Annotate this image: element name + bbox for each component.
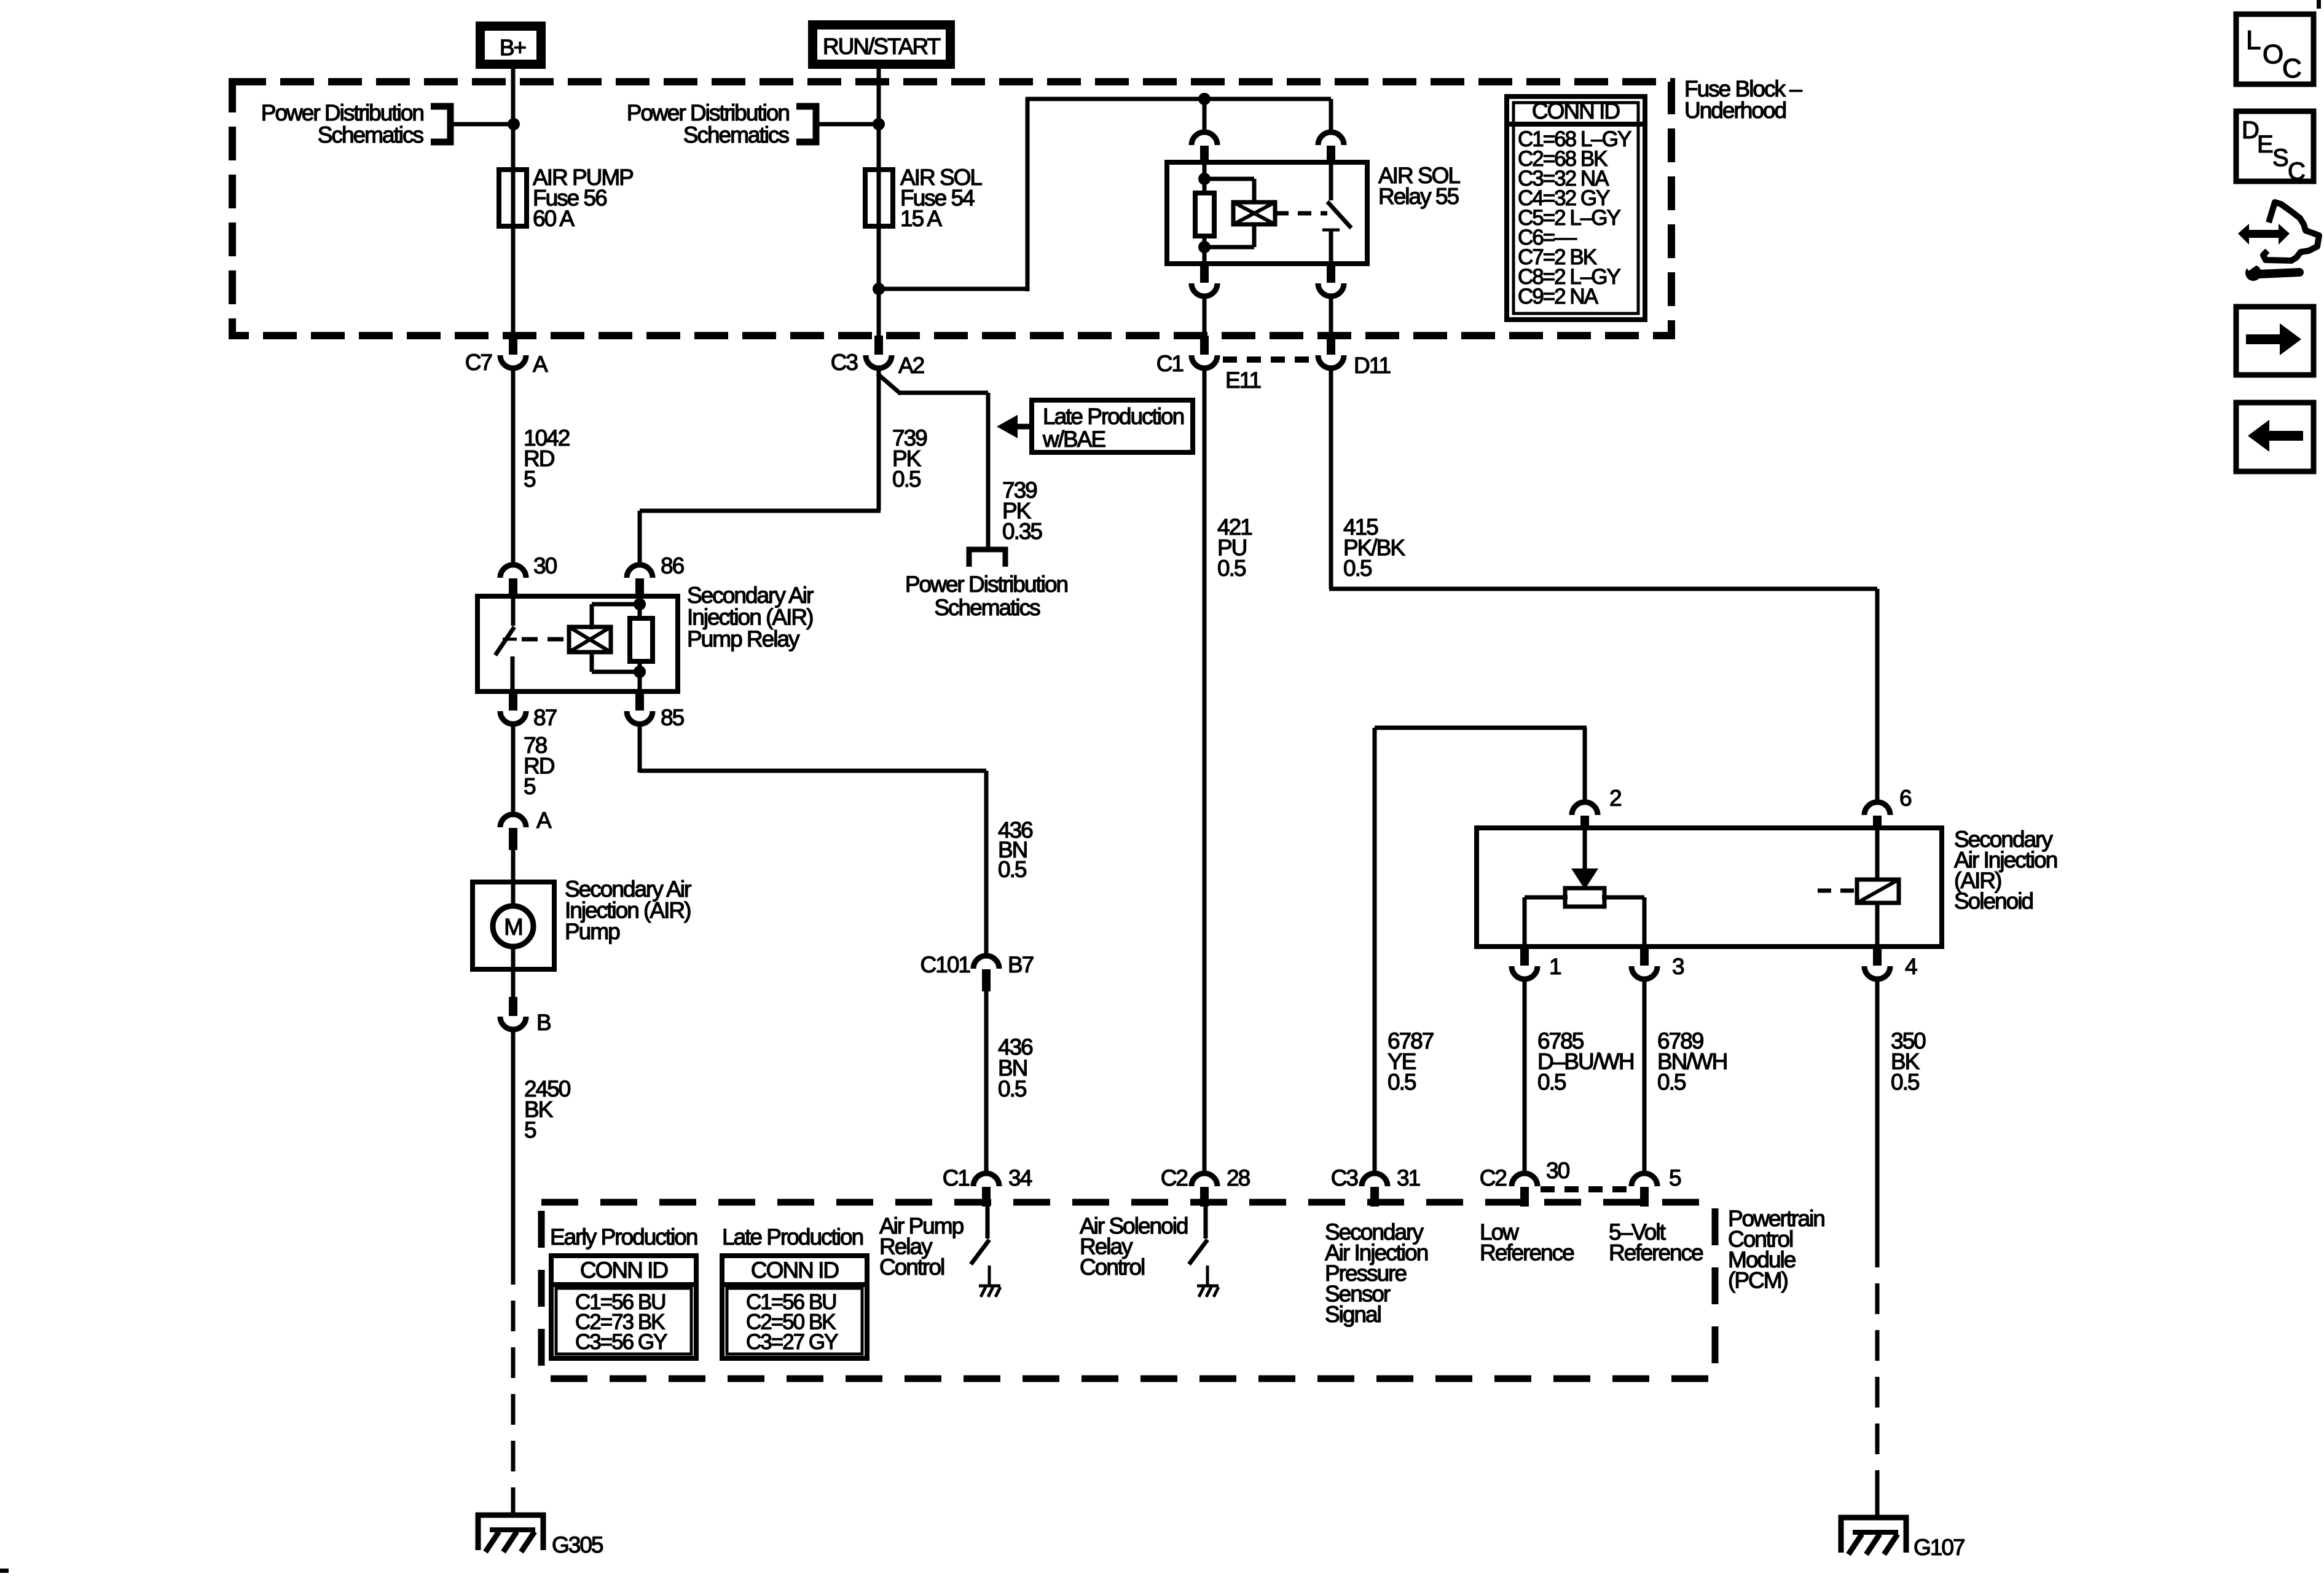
relay 55 actuation dashed link xyxy=(1275,211,1327,216)
component box Secondary Air Injection (AIR) Solenoid xyxy=(1477,828,1942,947)
connector pin 87 (pump relay) xyxy=(509,691,517,711)
svg-text:C9=2 NA: C9=2 NA xyxy=(1518,285,1599,309)
svg-text:Late Production: Late Production xyxy=(722,1224,863,1250)
switch (air pump relay control driver) xyxy=(986,1207,990,1238)
svg-text:5: 5 xyxy=(524,1117,536,1143)
switch (air solenoid relay control driver) xyxy=(1204,1207,1208,1238)
wire across to relay 55 pins xyxy=(1026,97,1331,101)
wire 739 PK 0.5 (C3 to relay pin 86) xyxy=(877,368,881,511)
wire into G305 xyxy=(511,1494,516,1515)
connector solenoid pin 3 xyxy=(1640,947,1649,966)
icon vehicle outline with arrows and wrench xyxy=(2263,202,2319,261)
svg-text:5: 5 xyxy=(524,774,536,799)
icon LOC box xyxy=(2236,14,2314,84)
fuse block - underhood dashed outline xyxy=(232,82,1671,336)
bracket to Power Distribution Schematics (right) xyxy=(813,103,820,145)
svg-text:3: 3 xyxy=(1672,954,1684,979)
connector table CONN ID (fuse block) xyxy=(1507,96,1645,320)
connector table CONN ID (late production) xyxy=(722,1256,867,1358)
svg-text:15 A: 15 A xyxy=(900,206,942,231)
fuse F54 AIR SOL xyxy=(865,170,893,226)
icon back arrow box xyxy=(2236,403,2314,471)
svg-text:G305: G305 xyxy=(552,1532,603,1557)
wire 436 BN 0.5 (relay 85 to C101) xyxy=(638,724,642,773)
connector pump terminal B xyxy=(509,997,517,1016)
relay 55 coil feed wire xyxy=(1203,162,1207,264)
svg-text:Power Distribution: Power Distribution xyxy=(261,100,424,125)
svg-text:31: 31 xyxy=(1397,1165,1420,1191)
svg-text:Reference: Reference xyxy=(1609,1240,1703,1266)
svg-text:A2: A2 xyxy=(898,353,924,378)
connector table CONN ID (early production) xyxy=(551,1256,696,1358)
wire into G107 xyxy=(1875,1496,1880,1518)
svg-text:Control: Control xyxy=(1080,1254,1144,1280)
svg-text:0.5: 0.5 xyxy=(892,467,921,492)
wire 350 BK 0.5 (solenoid 4 down) xyxy=(1875,979,1880,1237)
svg-text:M: M xyxy=(504,915,524,940)
svg-text:C2: C2 xyxy=(1480,1165,1507,1191)
wire fuse 54 to C3 xyxy=(877,226,881,337)
svg-text:6: 6 xyxy=(1899,786,1911,811)
resistor (relay 55 internal) xyxy=(1195,193,1214,236)
svg-text:C: C xyxy=(2282,53,2302,84)
wire 78 RD 5 (relay 87 to pump A) xyxy=(511,724,516,813)
svg-text:(PCM): (PCM) xyxy=(1728,1268,1788,1293)
wire into pump xyxy=(511,850,516,882)
svg-text:Pump: Pump xyxy=(565,919,620,944)
coil (pump relay winding) xyxy=(569,627,611,652)
svg-text:4: 4 xyxy=(1905,954,1917,979)
ground (PCM internal, pump driver) xyxy=(979,1285,1000,1288)
connector solenoid pin 2 xyxy=(1572,802,1598,815)
svg-text:Pump Relay: Pump Relay xyxy=(687,626,800,652)
wire 6785 D-BU/WH 0.5 (pin 1 to PCM 30) xyxy=(1523,979,1527,1171)
svg-text:87: 87 xyxy=(533,705,557,730)
svg-text:Reference: Reference xyxy=(1480,1240,1574,1266)
relay U55 AIR SOL Relay box xyxy=(1167,162,1367,264)
svg-text:0.5: 0.5 xyxy=(1388,1069,1416,1095)
node relay 55 coil bottom xyxy=(1198,241,1211,253)
wire fuse 56 to C7 xyxy=(511,226,516,337)
connector pin 30 (pump relay) xyxy=(500,565,526,578)
svg-text:CONN ID: CONN ID xyxy=(1532,98,1620,124)
connector E11 terminal D11 xyxy=(1327,336,1335,355)
svg-text:Signal: Signal xyxy=(1325,1302,1381,1327)
wire 421 PU 0.5 (E11 C1 to PCM 28) xyxy=(1203,368,1207,1171)
bracket to Power Distribution Schematics (left) xyxy=(447,103,454,145)
svg-text:Control: Control xyxy=(879,1254,944,1280)
connector pin (relay 55 left, top) xyxy=(1203,99,1207,130)
wire up to relay 55 row xyxy=(1026,97,1030,291)
wire 6787 YE 0.5 (sensor 2 to PCM 31) xyxy=(1583,728,1587,800)
svg-text:1: 1 xyxy=(1549,954,1561,979)
svg-text:0.5: 0.5 xyxy=(998,1076,1027,1101)
wire 739 PK 0.35 branch xyxy=(877,374,901,394)
node pump relay coil top xyxy=(634,598,646,610)
connector pin 86 (pump relay) xyxy=(627,565,653,578)
wire 6789 BN/WH 0.5 (pin 3 to PCM 5) xyxy=(1643,979,1647,1171)
icon forward arrow box xyxy=(2236,307,2314,375)
page corner mark bottom-left xyxy=(0,1569,9,1573)
svg-text:C: C xyxy=(2288,158,2306,185)
wire sensor resistor left to pin 1 xyxy=(1525,896,1568,900)
svg-text:L: L xyxy=(2246,25,2261,55)
pump relay coil wire xyxy=(638,596,642,691)
power symbol RUN/START box xyxy=(808,20,955,69)
wire pump relay coil loop bottom xyxy=(590,652,594,672)
svg-text:CONN ID: CONN ID xyxy=(580,1258,668,1283)
svg-text:0.5: 0.5 xyxy=(1657,1069,1686,1095)
svg-text:C101: C101 xyxy=(921,952,970,977)
pressure sensor arrow xyxy=(1583,828,1587,872)
svg-text:B+: B+ xyxy=(500,35,526,60)
svg-text:0.5: 0.5 xyxy=(1217,556,1246,581)
connector pin 85 (pump relay) xyxy=(635,691,644,711)
wire 436 BN 0.5 (C101 to PCM 34) xyxy=(984,991,989,1171)
wire relay 55 coil loop top xyxy=(1202,177,1254,181)
svg-text:30: 30 xyxy=(533,553,557,578)
motor M (Secondary Air Injection Pump) box xyxy=(473,882,554,969)
svg-text:Power Distribution: Power Distribution xyxy=(905,572,1068,597)
connector pin (relay 55 left, bottom) xyxy=(1200,264,1209,283)
node junction on RUN/START wire xyxy=(873,118,885,130)
wire 2450 BK 5 dashed segment xyxy=(511,1254,516,1498)
wire relay 55 coil loop bottom xyxy=(1252,224,1257,247)
svg-text:0.5: 0.5 xyxy=(1537,1069,1566,1095)
resistor (pump relay internal) xyxy=(630,618,653,661)
connector PCM pin 5 xyxy=(1631,1173,1657,1186)
wire 350 BK dashed segment xyxy=(1875,1237,1880,1500)
pressure sensor resistor xyxy=(1565,888,1604,907)
svg-text:RUN/START: RUN/START xyxy=(823,34,941,59)
svg-text:Schematics: Schematics xyxy=(683,122,790,148)
svg-text:C2: C2 xyxy=(1161,1165,1188,1191)
svg-text:0.5: 0.5 xyxy=(998,857,1027,882)
solenoid coil xyxy=(1875,828,1880,881)
relay K (Secondary Air Injection Pump Relay) box xyxy=(477,596,678,691)
svg-text:A: A xyxy=(533,352,548,377)
connector C101 terminal B7 xyxy=(973,956,999,969)
PCM dashed outline xyxy=(541,1202,1715,1379)
pump relay actuation dashed link xyxy=(522,637,567,642)
svg-text:C3: C3 xyxy=(1331,1165,1358,1191)
ground (PCM internal, solenoid driver) xyxy=(1197,1285,1219,1288)
wire RUN/START down to fuse 54 xyxy=(877,66,881,229)
connector pin (relay 55 right, top) xyxy=(1329,99,1333,130)
coil (relay 55 solenoid winding) xyxy=(1233,202,1275,224)
svg-text:CONN ID: CONN ID xyxy=(751,1258,839,1283)
svg-text:G107: G107 xyxy=(1914,1535,1965,1560)
node junction on B+ wire xyxy=(508,118,520,130)
connector PCM pin C1-34 xyxy=(973,1173,999,1186)
connector pump terminal A xyxy=(500,814,526,827)
switch (pump relay contacts) xyxy=(511,596,516,626)
svg-text:B7: B7 xyxy=(1008,952,1034,977)
callout box Late Production w/BAE xyxy=(1032,400,1193,452)
svg-text:34: 34 xyxy=(1008,1165,1032,1191)
svg-text:85: 85 xyxy=(661,705,685,730)
svg-text:5: 5 xyxy=(1669,1165,1681,1191)
page corner mark top-right xyxy=(2317,0,2321,9)
svg-text:28: 28 xyxy=(1227,1165,1250,1191)
icon DESC box xyxy=(2236,111,2314,181)
svg-text:Early Production: Early Production xyxy=(550,1224,697,1250)
wire sensor resistor right to pin 3 xyxy=(1602,896,1644,900)
off-page symbol to Power Distribution Schematics xyxy=(967,547,1008,553)
node relay 55 coil top xyxy=(1198,173,1211,185)
svg-text:0.5: 0.5 xyxy=(1891,1069,1920,1095)
connector solenoid pin 4 xyxy=(1873,947,1882,966)
svg-text:O: O xyxy=(2263,39,2283,69)
svg-text:C3=27 GY: C3=27 GY xyxy=(746,1330,838,1354)
svg-text:86: 86 xyxy=(661,553,684,578)
power symbol B+ box xyxy=(476,22,546,69)
svg-text:Schematics: Schematics xyxy=(318,122,424,148)
switch (relay 55 contacts) xyxy=(1329,162,1333,200)
svg-text:Schematics: Schematics xyxy=(934,595,1040,620)
wire 2450 BK 5 (pump B down) xyxy=(511,1030,516,1254)
svg-text:D11: D11 xyxy=(1354,353,1391,378)
svg-text:C3: C3 xyxy=(831,350,858,375)
svg-text:Solenoid: Solenoid xyxy=(1954,889,2033,914)
wire pump relay coil loop top xyxy=(592,602,642,607)
svg-text:Underhood: Underhood xyxy=(1684,98,1786,123)
node pump relay coil bottom xyxy=(634,666,646,678)
solenoid coil dashed actuation link xyxy=(1818,889,1856,893)
svg-text:A: A xyxy=(536,808,552,833)
PCM pins 30-5 dashed tie xyxy=(1541,1186,1628,1192)
connector solenoid pin 1 xyxy=(1520,947,1529,966)
svg-text:Relay 55: Relay 55 xyxy=(1378,184,1459,209)
wire pump to terminal B xyxy=(511,969,516,998)
connector pin (relay 55 right, bottom) xyxy=(1327,264,1335,283)
ground G305 xyxy=(476,1513,546,1518)
svg-text:30: 30 xyxy=(1546,1158,1570,1183)
svg-text:2: 2 xyxy=(1609,786,1621,811)
connector C3 terminal A2 xyxy=(874,336,883,355)
svg-text:0.5: 0.5 xyxy=(1343,556,1372,581)
motor symbol circle xyxy=(493,906,533,947)
node junction at relay 55 left pin xyxy=(1198,93,1211,105)
connector PCM pin C2-30 xyxy=(1512,1173,1537,1186)
connector PCM pin C3-31 xyxy=(1362,1173,1388,1186)
svg-text:C1: C1 xyxy=(943,1165,970,1191)
svg-text:w/BAE: w/BAE xyxy=(1042,427,1105,452)
svg-text:0.35: 0.35 xyxy=(1002,519,1042,544)
node junction to relay 55 feed xyxy=(873,283,885,295)
fuse F56 AIR PUMP xyxy=(499,170,527,226)
ground G107 xyxy=(1839,1515,1909,1521)
svg-text:5: 5 xyxy=(524,467,536,492)
wire junction right xyxy=(879,287,1027,291)
svg-text:C1: C1 xyxy=(1156,351,1184,376)
svg-text:E11: E11 xyxy=(1225,368,1261,393)
svg-text:Late Production: Late Production xyxy=(1043,404,1184,429)
svg-text:C7: C7 xyxy=(465,350,492,375)
connector C7 terminal A xyxy=(509,336,517,355)
svg-text:S: S xyxy=(2272,144,2289,171)
wire through pump box xyxy=(511,882,516,907)
connector PCM pin C2-28 xyxy=(1191,1173,1217,1186)
wire B+ down to fuse 56 xyxy=(511,66,516,229)
svg-text:E: E xyxy=(2257,131,2274,158)
svg-text:B: B xyxy=(536,1010,551,1035)
svg-text:60 A: 60 A xyxy=(533,206,575,231)
connector solenoid pin 6 xyxy=(1864,802,1890,815)
svg-text:Power Distribution: Power Distribution xyxy=(627,100,790,125)
svg-text:C3=56 GY: C3=56 GY xyxy=(575,1330,667,1354)
connector E11 terminal C1 xyxy=(1200,336,1209,355)
connector E11 dashed tie xyxy=(1223,356,1314,363)
wire 1042 RD 5 (C7 to relay pin 30) xyxy=(511,368,516,563)
wire 415 PK/BK 0.5 (D11 to solenoid 6) xyxy=(1329,368,1333,589)
arrow Late Production w/BAE xyxy=(1015,424,1033,430)
